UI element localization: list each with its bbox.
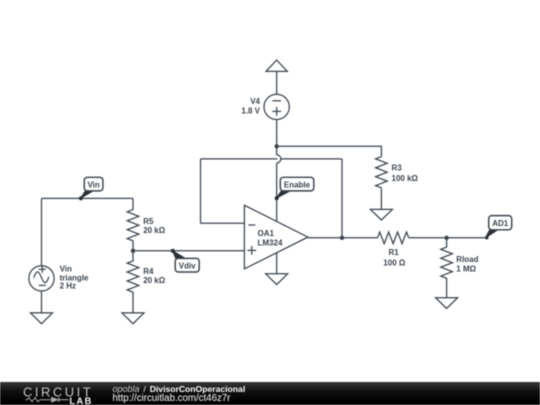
- wire feedback left vertical: [200, 159, 202, 223]
- ground under op-amp: [266, 274, 288, 285]
- wire Vin net top: [42, 197, 134, 199]
- svg-text:R5: R5: [143, 217, 154, 226]
- svg-text:100 kΩ: 100 kΩ: [392, 174, 419, 183]
- footer bar: [0, 382, 540, 405]
- resistor R3: [376, 157, 388, 188]
- V4 plus sign: [272, 107, 281, 116]
- svg-text:LAB: LAB: [69, 396, 92, 405]
- svg-text:OA1: OA1: [258, 229, 275, 238]
- svg-text:V4: V4: [250, 97, 260, 106]
- wire feedback top left segment: [201, 158, 278, 160]
- svg-text:20 kΩ: 20 kΩ: [143, 226, 166, 235]
- svg-text:20 kΩ: 20 kΩ: [143, 276, 166, 285]
- wire feedback top right segment: [281, 158, 342, 160]
- op-amp minus input sign: [248, 224, 255, 226]
- flag AD1: [485, 216, 512, 240]
- svg-text:1.8 V: 1.8 V: [241, 107, 260, 116]
- svg-text:R3: R3: [392, 163, 403, 172]
- wire Vdiv net: [133, 250, 244, 252]
- svg-text:R4: R4: [143, 267, 154, 276]
- wire R1 to AD1: [409, 237, 488, 239]
- ground under Rload: [436, 298, 458, 309]
- svg-text:Enable: Enable: [284, 180, 311, 189]
- resistor R1: [378, 232, 409, 244]
- svg-text:100 Ω: 100 Ω: [383, 258, 406, 267]
- op-amp plus input sign: [247, 246, 256, 255]
- voltage source V4 body: [264, 94, 289, 119]
- svg-text:2 Hz: 2 Hz: [60, 282, 76, 291]
- voltage source Vin body: [29, 266, 54, 291]
- wire op-amp output: [308, 237, 378, 239]
- svg-text:Vin: Vin: [87, 180, 99, 189]
- wire Vin source top lead: [41, 198, 43, 265]
- node junction feedback tap: [340, 236, 344, 240]
- svg-text:Rload: Rload: [456, 255, 478, 264]
- wire feedback to inverting input: [201, 222, 245, 224]
- wire node to R3 top corner: [277, 146, 382, 156]
- node junction V4 to R3: [274, 144, 278, 148]
- logo CircuitLab: [0, 382, 110, 405]
- wire R3 bottom to ground: [380, 188, 382, 210]
- flag Enable: [275, 177, 314, 200]
- ground under R4: [122, 313, 144, 324]
- wire vcc hop over feedback wire: [277, 146, 281, 163]
- svg-text:1 MΩ: 1 MΩ: [456, 265, 476, 274]
- wire V4 bottom to node: [276, 120, 278, 147]
- wire feedback from output up: [341, 159, 343, 238]
- Vin minus sign: [39, 284, 46, 286]
- op-amp OA1 body: [244, 205, 308, 269]
- Vin plus sign: [39, 266, 46, 273]
- wire Vin source bottom to ground: [41, 291, 43, 313]
- resistor Rload: [441, 238, 453, 298]
- resistor R5: [127, 198, 139, 250]
- footer credit line: [113, 385, 246, 405]
- svg-text:Vdiv: Vdiv: [179, 261, 196, 270]
- svg-text:LM324: LM324: [258, 238, 283, 247]
- Vin sine wave: [34, 272, 49, 283]
- ground under R3: [370, 209, 392, 220]
- svg-text:Vin: Vin: [60, 264, 72, 273]
- wire enable pin (V+ power pin into op-amp): [276, 163, 278, 221]
- flag Vdiv: [171, 249, 200, 272]
- ground under Vin: [31, 313, 53, 324]
- node junction R5-R4 divider: [131, 249, 135, 253]
- node junction Rload tap: [444, 236, 448, 240]
- resistor R4: [127, 251, 139, 313]
- flag Vin: [79, 177, 103, 200]
- wire op-amp V- power pin: [276, 253, 278, 274]
- V4 minus sign: [272, 100, 281, 102]
- svg-text:AD1: AD1: [492, 219, 509, 228]
- svg-text:R1: R1: [389, 248, 400, 257]
- power rail V+ symbol: [266, 60, 287, 71]
- wire V+ rail to V4 top: [276, 71, 278, 94]
